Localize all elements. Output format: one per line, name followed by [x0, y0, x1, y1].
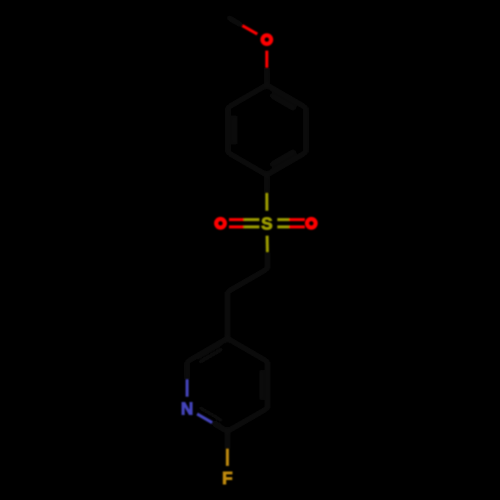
svg-text:S: S — [261, 214, 272, 234]
svg-text:F: F — [222, 468, 233, 488]
svg-text:N: N — [181, 399, 193, 419]
